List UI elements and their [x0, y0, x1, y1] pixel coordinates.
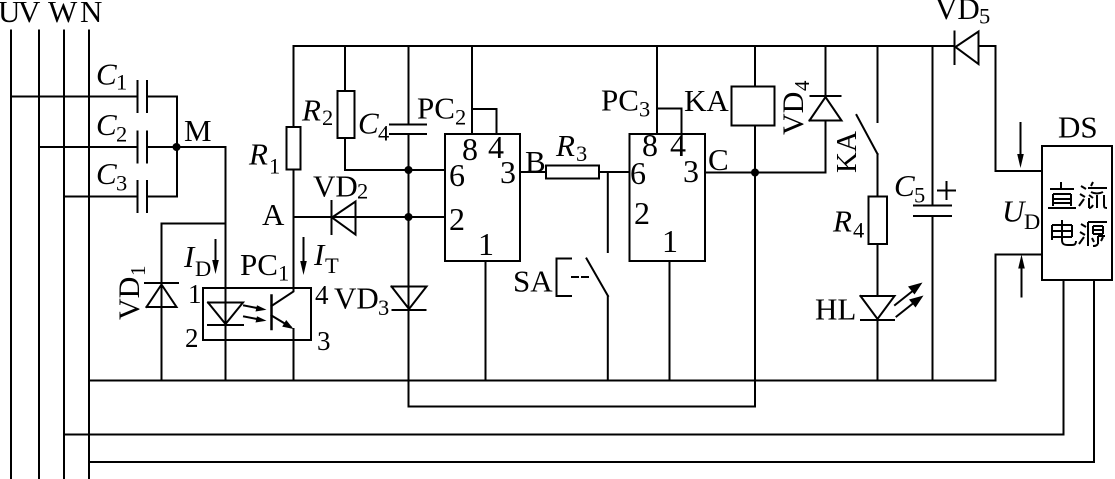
- svg-text:3: 3: [317, 326, 331, 356]
- svg-text:1: 1: [278, 261, 289, 286]
- svg-text:VD: VD: [935, 0, 980, 26]
- svg-text:1: 1: [188, 279, 202, 309]
- svg-text:DS: DS: [1058, 110, 1098, 145]
- svg-text:3: 3: [576, 141, 587, 166]
- svg-text:2: 2: [634, 195, 650, 231]
- svg-text:R: R: [555, 128, 575, 163]
- svg-text:1: 1: [269, 154, 280, 179]
- svg-text:4: 4: [315, 280, 329, 310]
- svg-text:C: C: [708, 142, 729, 177]
- svg-text:N: N: [80, 0, 102, 29]
- svg-text:VD: VD: [777, 92, 810, 135]
- svg-text:1: 1: [126, 266, 150, 277]
- svg-text:3: 3: [116, 171, 127, 196]
- svg-text:VD: VD: [313, 169, 358, 204]
- svg-text:3: 3: [683, 153, 699, 189]
- svg-text:KA: KA: [684, 83, 729, 118]
- svg-text:C: C: [96, 156, 117, 191]
- svg-text:6: 6: [630, 155, 646, 191]
- svg-text:A: A: [262, 197, 285, 232]
- svg-text:W: W: [48, 0, 78, 29]
- svg-text:6: 6: [449, 157, 465, 193]
- svg-text:SA: SA: [513, 264, 553, 299]
- svg-text:C: C: [96, 57, 117, 92]
- svg-text:C: C: [96, 107, 117, 142]
- svg-text:PC: PC: [601, 83, 639, 118]
- svg-text:2: 2: [185, 323, 199, 353]
- svg-text:2: 2: [357, 179, 368, 204]
- svg-text:3: 3: [639, 97, 650, 122]
- svg-text:PC: PC: [417, 91, 455, 126]
- svg-text:R: R: [301, 93, 321, 128]
- svg-text:R: R: [832, 204, 852, 239]
- svg-text:VD: VD: [113, 277, 146, 320]
- svg-text:1: 1: [116, 70, 127, 95]
- svg-text:2: 2: [322, 105, 333, 130]
- svg-text:C: C: [358, 106, 379, 141]
- svg-text:PC: PC: [240, 247, 278, 282]
- svg-text:D: D: [195, 256, 211, 281]
- svg-text:4: 4: [853, 218, 864, 243]
- svg-text:T: T: [325, 253, 339, 278]
- svg-text:4: 4: [790, 80, 814, 91]
- svg-text:2: 2: [455, 105, 466, 130]
- svg-text:B: B: [525, 144, 546, 179]
- svg-text:2: 2: [449, 201, 465, 237]
- svg-text:1: 1: [662, 223, 678, 259]
- svg-text:D: D: [1024, 209, 1040, 234]
- svg-text:C: C: [894, 168, 915, 203]
- svg-text:KA: KA: [831, 131, 863, 173]
- svg-text:5: 5: [979, 4, 990, 29]
- svg-text:R: R: [248, 137, 268, 172]
- svg-text:V: V: [18, 0, 41, 29]
- svg-text:3: 3: [378, 295, 389, 320]
- svg-text:VD: VD: [334, 281, 379, 316]
- svg-text:M: M: [184, 113, 212, 148]
- svg-text:3: 3: [500, 154, 516, 190]
- svg-text:2: 2: [116, 122, 127, 147]
- svg-text:5: 5: [914, 183, 925, 208]
- svg-text:1: 1: [478, 226, 494, 262]
- svg-text:4: 4: [378, 121, 389, 146]
- svg-text:HL: HL: [815, 292, 856, 327]
